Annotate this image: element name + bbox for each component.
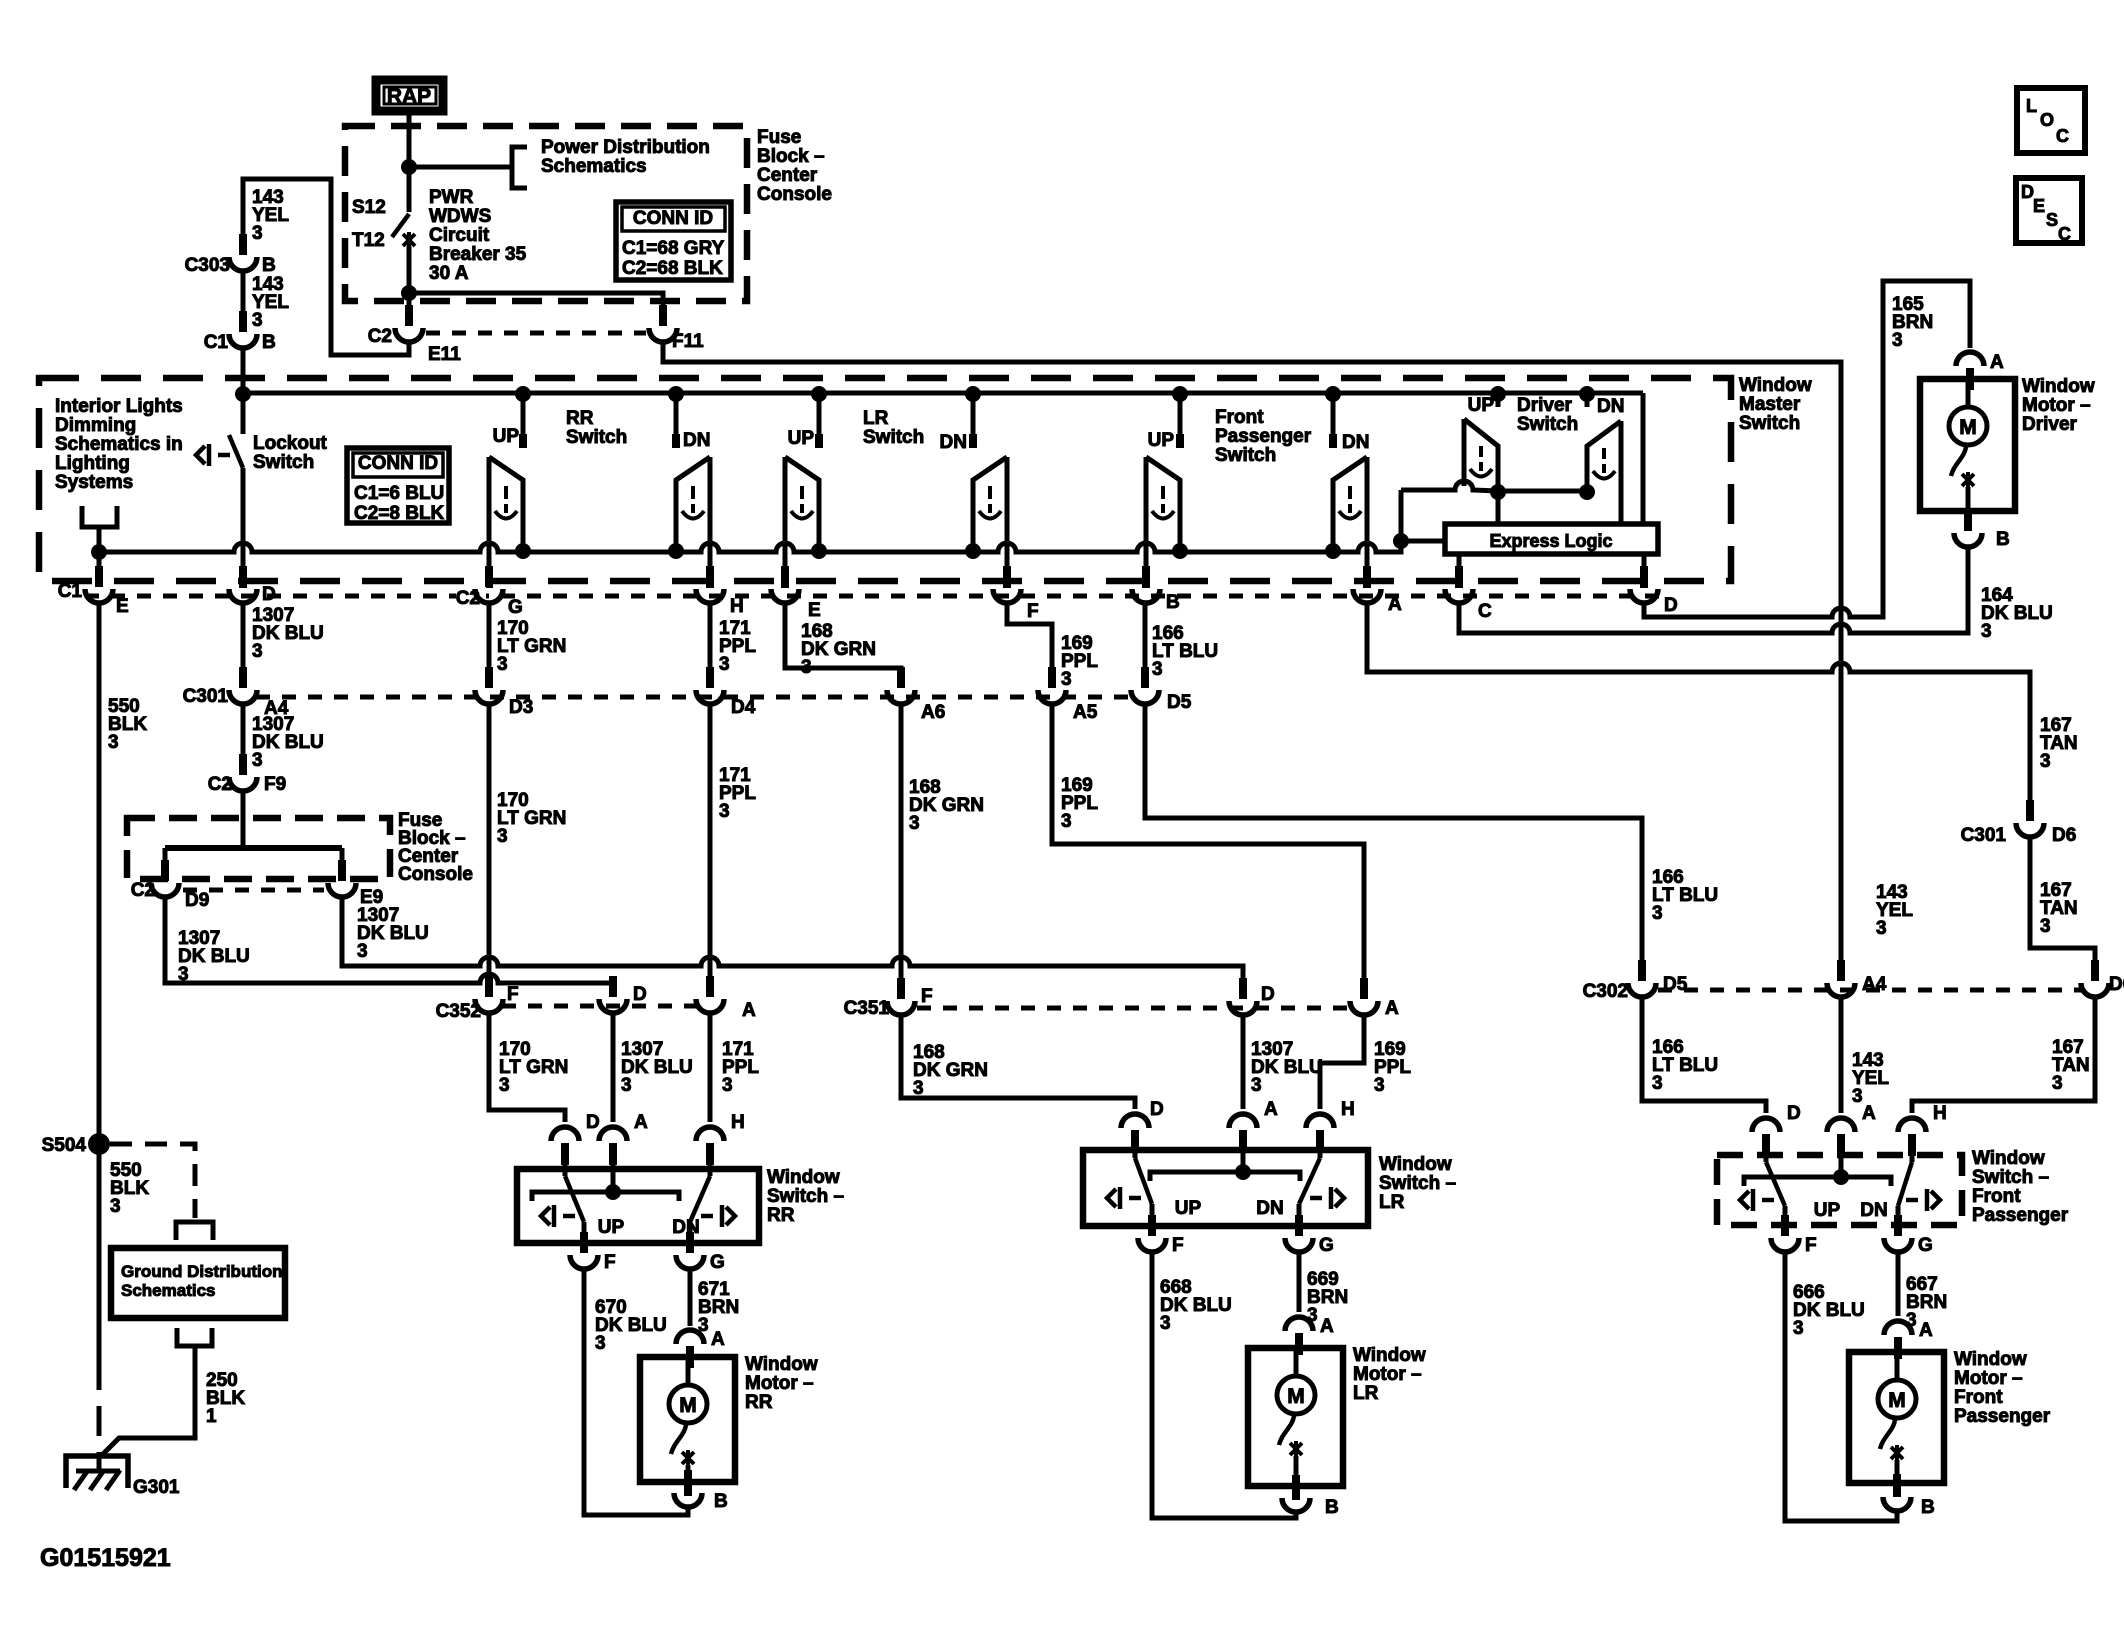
svg-text:Express Logic: Express Logic xyxy=(1489,531,1612,551)
window motor box xyxy=(1849,1352,1944,1483)
svg-text:B: B xyxy=(1921,1497,1935,1518)
connector C2 F9 xyxy=(229,777,257,791)
wire E to A6 elbow xyxy=(785,603,901,682)
CONN ID box fuse block xyxy=(616,202,731,280)
fuse block center console 2 dashed box xyxy=(127,818,390,879)
connector LR switch G xyxy=(1285,1238,1313,1252)
wire 167 TAN pin A to C301 D6 xyxy=(1367,603,2030,815)
connector C352 D xyxy=(599,999,627,1013)
FP switch release right xyxy=(1906,1189,1940,1211)
svg-text:H: H xyxy=(730,596,744,617)
svg-text:3: 3 xyxy=(1793,1318,1804,1339)
svg-text:CONN ID: CONN ID xyxy=(633,208,713,229)
connector RR motor A xyxy=(676,1330,704,1344)
wire interior lights to ground bus xyxy=(97,527,102,570)
wire 667 BRN G to motor A xyxy=(1896,1252,1901,1316)
connector A6 xyxy=(887,690,915,704)
RR switch common bar xyxy=(532,1192,679,1201)
svg-text:S12: S12 xyxy=(352,197,386,218)
svg-text:DN: DN xyxy=(1256,1198,1283,1219)
connector C express logic xyxy=(1445,589,1473,603)
svg-text:C2=8 BLK: C2=8 BLK xyxy=(354,503,445,524)
svg-text:3: 3 xyxy=(909,813,920,834)
svg-text:DK BLU: DK BLU xyxy=(357,923,429,944)
svg-text:1: 1 xyxy=(206,1406,217,1427)
RAP box xyxy=(376,80,443,111)
D9 E9 dotted line xyxy=(183,888,324,893)
wire 1307 D9 branch to C352 D xyxy=(165,897,613,991)
svg-text:Window: Window xyxy=(745,1354,818,1375)
DESC box xyxy=(2016,178,2082,243)
wire 143 YEL E11 to C303 loop xyxy=(243,179,409,355)
power bus junction at lockout xyxy=(235,386,251,402)
driver DN contact xyxy=(1585,395,1590,407)
svg-text:Schematics: Schematics xyxy=(541,156,647,177)
wire 668 DK BLU F to motor B xyxy=(1152,1252,1296,1518)
wire 165 BRN pin D to motor A xyxy=(1644,281,1970,617)
svg-text:3: 3 xyxy=(1981,621,1992,642)
connector FP motor A xyxy=(1884,1321,1912,1335)
svg-text:Driver: Driver xyxy=(1517,395,1573,416)
svg-text:Window: Window xyxy=(1954,1349,2027,1370)
wire A4 to C2 F9 xyxy=(241,704,246,769)
LR DN contact xyxy=(971,395,976,448)
svg-text:A: A xyxy=(634,1112,648,1133)
svg-text:G301: G301 xyxy=(133,1477,180,1498)
svg-text:UP: UP xyxy=(1468,395,1495,416)
svg-text:Circuit: Circuit xyxy=(429,225,490,246)
power bus feed to express logic xyxy=(1641,393,1646,524)
svg-text:WDWS: WDWS xyxy=(429,206,491,227)
svg-text:Switch: Switch xyxy=(566,427,627,448)
svg-text:A6: A6 xyxy=(921,702,945,723)
motor thermal contact star xyxy=(1962,472,1974,488)
connector FP switch G xyxy=(1884,1238,1912,1252)
LOC box xyxy=(2017,88,2085,153)
svg-text:DK BLU: DK BLU xyxy=(1251,1057,1323,1078)
ground distribution schematics box xyxy=(111,1248,285,1318)
LR switch common bar xyxy=(1150,1172,1300,1181)
motor thermal blade xyxy=(1951,445,1966,476)
wire lockout to D pin xyxy=(241,468,246,572)
wire 1307 C352 D to switch A xyxy=(611,1013,616,1122)
svg-text:E: E xyxy=(2033,196,2045,216)
svg-text:B: B xyxy=(1166,592,1180,613)
connector LR switch H xyxy=(1306,1114,1334,1128)
svg-text:C2: C2 xyxy=(368,326,392,347)
motor M circle xyxy=(1277,1376,1315,1414)
motor thermal contact star xyxy=(1891,1445,1903,1461)
motor pin B stub xyxy=(1292,1486,1300,1500)
wire express logic pin D xyxy=(1642,554,1647,572)
svg-text:3: 3 xyxy=(110,1196,121,1217)
svg-text:Switch: Switch xyxy=(1517,414,1578,435)
svg-text:Passenger: Passenger xyxy=(1215,426,1312,447)
svg-text:C2: C2 xyxy=(208,774,232,795)
wire express logic pin C xyxy=(1457,554,1462,572)
svg-text:D6: D6 xyxy=(2109,974,2124,995)
svg-text:G: G xyxy=(710,1252,725,1273)
svg-text:DK BLU: DK BLU xyxy=(1981,603,2053,624)
motor thermal blade xyxy=(671,1423,686,1454)
svg-text:C301: C301 xyxy=(1961,825,2007,846)
svg-text:D: D xyxy=(1261,984,1275,1005)
svg-text:S504: S504 xyxy=(42,1135,87,1156)
svg-text:RR: RR xyxy=(566,408,594,429)
motor lead xyxy=(1966,379,1971,407)
svg-text:A: A xyxy=(1388,594,1402,615)
driver UP contact xyxy=(1496,395,1501,407)
svg-text:F: F xyxy=(1172,1235,1184,1256)
wire 143 C302 A4 to FP switch A xyxy=(1839,997,1844,1113)
connector E LR up xyxy=(771,589,799,603)
express logic box xyxy=(1445,524,1658,554)
connector FP switch D xyxy=(1752,1118,1780,1132)
svg-text:Center: Center xyxy=(757,165,818,186)
wire 671 BRN G to motor A xyxy=(688,1269,693,1326)
connector RR switch H xyxy=(696,1127,724,1141)
svg-text:LR: LR xyxy=(1353,1383,1379,1404)
svg-text:C351: C351 xyxy=(844,998,890,1019)
svg-text:3: 3 xyxy=(1251,1075,1262,1096)
svg-text:T12: T12 xyxy=(352,230,385,251)
connector C2 G xyxy=(456,586,486,607)
svg-text:Switch: Switch xyxy=(253,452,314,473)
svg-text:D6: D6 xyxy=(2052,825,2076,846)
wire junction to F11 xyxy=(409,293,663,325)
window motor box xyxy=(1920,379,2015,511)
connector motor driver A xyxy=(1956,352,1984,366)
connector RR switch G xyxy=(676,1255,704,1269)
connector FP switch H xyxy=(1898,1118,1926,1132)
svg-text:DK BLU: DK BLU xyxy=(252,623,324,644)
svg-text:D5: D5 xyxy=(1167,692,1192,713)
svg-text:3: 3 xyxy=(2040,916,2051,937)
wire 166 C302 D5 to FP switch D xyxy=(1642,997,1766,1113)
connector C352 A xyxy=(696,999,724,1013)
circuit breaker 35 blade xyxy=(407,167,412,212)
svg-text:3: 3 xyxy=(1652,1073,1663,1094)
lockout switch blade xyxy=(229,435,243,468)
FP switch DN blade xyxy=(1910,1156,1915,1162)
ground G301 symbol xyxy=(66,1456,128,1488)
connector C301 D6 xyxy=(2016,823,2044,837)
FP switch UP blade xyxy=(1764,1156,1769,1162)
connector FP switch A xyxy=(1827,1118,1855,1132)
wire 164 DK BLU pin C to motor B xyxy=(1459,549,1968,633)
FP switch release left xyxy=(1740,1189,1774,1211)
svg-text:B: B xyxy=(714,1491,728,1512)
LR UP contact xyxy=(817,395,822,448)
splice S504 xyxy=(88,1133,110,1155)
ground distribution bottom bracket xyxy=(177,1328,212,1346)
C352 connector row dotted line xyxy=(502,1004,698,1009)
svg-text:C: C xyxy=(2056,126,2069,146)
svg-text:H: H xyxy=(731,1112,745,1133)
svg-text:G: G xyxy=(1319,1235,1334,1256)
svg-text:Window: Window xyxy=(1739,375,1812,396)
connector C301 D5 xyxy=(1131,690,1159,704)
wire 143 YEL C1 to lockout xyxy=(241,348,246,434)
connector B front passenger up xyxy=(1132,589,1160,603)
RR switch UP blade xyxy=(563,1165,568,1176)
wire 1307 E9 branch to C351 D xyxy=(342,897,1243,993)
svg-text:Switch –: Switch – xyxy=(767,1186,844,1207)
C2 connector row dotted line xyxy=(426,331,646,336)
svg-text:A: A xyxy=(1990,352,2004,373)
svg-text:Master: Master xyxy=(1739,394,1801,415)
svg-text:3: 3 xyxy=(252,310,263,331)
svg-text:3: 3 xyxy=(1152,659,1163,680)
motor M circle xyxy=(669,1385,707,1423)
svg-text:Switch –: Switch – xyxy=(1972,1167,2049,1188)
wire 171 C352 A to switch H xyxy=(708,1013,713,1122)
svg-text:D: D xyxy=(633,984,647,1005)
svg-text:3: 3 xyxy=(719,654,730,675)
CONN ID box master switch xyxy=(347,448,449,523)
svg-text:H: H xyxy=(1933,1103,1947,1124)
motor pin B stub xyxy=(1964,511,1972,525)
svg-text:RR: RR xyxy=(767,1205,795,1226)
wire B to D5 xyxy=(1143,603,1148,682)
wire 170 C352 F to switch D xyxy=(489,1013,565,1122)
svg-text:Switch: Switch xyxy=(1215,445,1276,466)
wire 171 PPL D4 to C352 A xyxy=(708,704,713,991)
connector D4 xyxy=(696,690,724,704)
svg-text:C2=68 BLK: C2=68 BLK xyxy=(622,258,723,279)
svg-text:Systems: Systems xyxy=(55,472,133,493)
wire G to D3 xyxy=(487,603,492,682)
svg-text:Driver: Driver xyxy=(2022,414,2078,435)
wire E to C301 A4 xyxy=(241,603,246,682)
splice S12 junction xyxy=(401,159,417,175)
connector RR motor B xyxy=(674,1493,702,1507)
connector RR switch A xyxy=(599,1127,627,1141)
connector RR switch F xyxy=(570,1255,598,1269)
svg-text:A: A xyxy=(711,1329,725,1350)
wire 170 LT GRN D3 to C352 F xyxy=(487,704,492,991)
motor lead xyxy=(686,1357,691,1385)
svg-text:3: 3 xyxy=(497,826,508,847)
svg-text:D4: D4 xyxy=(731,697,756,718)
motor M circle xyxy=(1949,407,1987,445)
svg-text:A: A xyxy=(1264,1099,1278,1120)
svg-text:Front: Front xyxy=(1972,1186,2021,1207)
svg-text:F: F xyxy=(507,984,519,1005)
svg-text:Window: Window xyxy=(1972,1148,2045,1169)
circuit breaker contact star xyxy=(403,232,415,248)
LR switch DN blade xyxy=(1318,1152,1323,1158)
svg-text:Schematics: Schematics xyxy=(121,1281,216,1300)
svg-text:C301: C301 xyxy=(183,686,229,707)
C302 connector row dotted line xyxy=(1658,988,2082,993)
svg-text:C1=6 BLU: C1=6 BLU xyxy=(354,483,444,504)
svg-text:Motor –: Motor – xyxy=(745,1373,814,1394)
svg-text:LR: LR xyxy=(863,408,889,429)
RR switch DN blade xyxy=(708,1165,713,1176)
svg-text:B: B xyxy=(262,332,276,353)
svg-text:Motor –: Motor – xyxy=(2022,395,2091,416)
svg-text:G: G xyxy=(508,597,523,618)
svg-text:D: D xyxy=(262,584,276,605)
connector RR switch D xyxy=(551,1127,579,1141)
motor pin B stub xyxy=(1893,1483,1901,1497)
wire 666 DK BLU F to motor B xyxy=(1785,1252,1897,1521)
svg-text:3: 3 xyxy=(1061,811,1072,832)
RR switch release right xyxy=(701,1205,735,1227)
RR switch release left xyxy=(541,1205,575,1227)
svg-text:Window: Window xyxy=(1353,1345,1426,1366)
svg-text:Breaker 35: Breaker 35 xyxy=(429,244,527,265)
svg-text:UP: UP xyxy=(1814,1200,1841,1221)
svg-text:DN: DN xyxy=(683,430,710,451)
connector D express logic xyxy=(1630,589,1658,603)
connector LR switch D xyxy=(1121,1114,1149,1128)
svg-text:UP: UP xyxy=(493,426,520,447)
connector FP motor B xyxy=(1883,1497,1911,1511)
svg-text:DN: DN xyxy=(1860,1200,1887,1221)
svg-text:F: F xyxy=(1805,1235,1817,1256)
svg-text:Console: Console xyxy=(398,864,473,885)
svg-text:DN: DN xyxy=(940,432,967,453)
svg-text:LR: LR xyxy=(1379,1192,1405,1213)
svg-text:M: M xyxy=(1888,1389,1906,1412)
driver contacts common link xyxy=(1401,481,1587,491)
motor thermal contact star xyxy=(682,1450,694,1466)
connector C352 F xyxy=(434,999,487,1020)
master switch power bus xyxy=(243,391,1643,396)
connector E9 xyxy=(328,883,356,897)
svg-text:C1=68 GRY: C1=68 GRY xyxy=(622,238,725,259)
svg-text:DK BLU: DK BLU xyxy=(252,732,324,753)
wire to power distribution bracket xyxy=(409,165,512,170)
svg-text:C1: C1 xyxy=(58,581,83,602)
svg-text:Interior Lights: Interior Lights xyxy=(55,396,183,417)
svg-text:3: 3 xyxy=(2040,751,2051,772)
junction below breaker xyxy=(401,285,417,301)
interior lights continuation bracket xyxy=(82,506,117,527)
svg-text:G01515921: G01515921 xyxy=(40,1544,171,1572)
svg-text:Motor –: Motor – xyxy=(1954,1368,2023,1389)
svg-text:3: 3 xyxy=(1061,669,1072,690)
svg-text:Passenger: Passenger xyxy=(1972,1205,2069,1226)
connector FP switch F xyxy=(1771,1238,1799,1252)
connector C302 D5 xyxy=(1581,979,1634,1000)
C301 connector row dotted line xyxy=(256,695,1130,700)
power distribution bracket xyxy=(512,147,527,188)
svg-text:DN: DN xyxy=(1597,396,1624,417)
motor thermal contact star xyxy=(1290,1441,1302,1457)
svg-text:3: 3 xyxy=(719,801,730,822)
master switch connector row dotted line xyxy=(85,594,1662,599)
svg-text:D3: D3 xyxy=(509,697,533,718)
dashed wire 550 BLK to G301 xyxy=(97,1360,102,1456)
svg-text:D9: D9 xyxy=(185,890,209,911)
svg-text:Schematics in: Schematics in xyxy=(55,434,183,455)
connector LR switch F xyxy=(1138,1238,1166,1252)
window motor box xyxy=(640,1357,735,1482)
svg-text:CONN ID: CONN ID xyxy=(358,453,438,474)
ground distribution top bracket xyxy=(176,1222,213,1240)
svg-text:M: M xyxy=(1959,416,1977,439)
svg-text:DK GRN: DK GRN xyxy=(909,795,984,816)
fuse block 2 bus bar xyxy=(241,791,246,848)
connector C1 B xyxy=(229,334,257,348)
wire breaker to junction xyxy=(407,246,412,293)
motor thermal blade xyxy=(1279,1414,1294,1445)
svg-text:DK BLU: DK BLU xyxy=(595,1315,667,1336)
svg-text:B: B xyxy=(1325,1497,1339,1518)
svg-text:C302: C302 xyxy=(1583,981,1628,1002)
window switch RR box xyxy=(517,1169,759,1243)
RR DN contact xyxy=(674,395,679,448)
fuse block center console dashed box xyxy=(345,126,747,301)
wire 168 DK GRN A6 to C351 F xyxy=(899,704,904,993)
connector F LR down xyxy=(993,589,1021,603)
connector C302 A4 xyxy=(1827,983,1855,997)
svg-text:A: A xyxy=(1919,1320,1933,1341)
svg-text:B: B xyxy=(262,255,276,276)
wire 1307 C351 D to switch A xyxy=(1241,1015,1246,1109)
svg-text:A4: A4 xyxy=(1862,974,1887,995)
motor pin B stub xyxy=(684,1482,692,1496)
connector A front passenger down xyxy=(1353,589,1381,603)
wire RAP to S12 xyxy=(407,111,412,167)
svg-text:Front: Front xyxy=(1954,1387,2003,1408)
svg-text:3: 3 xyxy=(252,750,263,771)
svg-text:3: 3 xyxy=(252,223,263,244)
connector C351 A xyxy=(1350,1001,1378,1015)
connector C303 B xyxy=(229,257,257,271)
svg-text:E11: E11 xyxy=(428,344,461,365)
svg-text:DK BLU: DK BLU xyxy=(1793,1300,1865,1321)
svg-text:A: A xyxy=(1320,1316,1334,1337)
svg-text:RAP: RAP xyxy=(387,85,431,108)
svg-text:DK GRN: DK GRN xyxy=(801,639,876,660)
window master switch dashed box xyxy=(39,378,1731,581)
connector C2 E11 xyxy=(395,328,423,342)
window switch front passenger dashed box xyxy=(1717,1155,1962,1225)
svg-text:Window: Window xyxy=(2022,376,2095,397)
svg-text:F: F xyxy=(1027,601,1039,622)
svg-text:3: 3 xyxy=(2052,1073,2063,1094)
svg-text:F11: F11 xyxy=(672,331,704,352)
svg-text:UP: UP xyxy=(1175,1198,1202,1219)
svg-text:Ground Distribution: Ground Distribution xyxy=(121,1262,282,1281)
lockout switch release symbol xyxy=(196,444,230,466)
svg-text:C: C xyxy=(1478,601,1492,622)
svg-text:D: D xyxy=(1664,595,1678,616)
wire F to A5 elbow xyxy=(1007,603,1052,682)
wire driver UP common to express logic xyxy=(1496,492,1501,524)
connector C2 D9 xyxy=(151,883,179,897)
svg-text:Switch: Switch xyxy=(1739,413,1800,434)
svg-text:3: 3 xyxy=(1160,1313,1171,1334)
connector F11 xyxy=(649,328,677,342)
wire 669 BRN G to motor A xyxy=(1297,1252,1302,1312)
RR UP contact xyxy=(521,395,526,448)
svg-text:M: M xyxy=(679,1394,697,1417)
svg-text:Lockout: Lockout xyxy=(253,433,328,454)
svg-text:3: 3 xyxy=(1876,918,1887,939)
svg-text:D5: D5 xyxy=(1663,974,1688,995)
wire 167 C302 D6 to FP switch H xyxy=(1912,997,2095,1113)
connector LR motor B xyxy=(1282,1498,1310,1512)
wire 250 BLK xyxy=(101,1346,195,1456)
svg-text:H: H xyxy=(1341,1099,1355,1120)
wire 167 TAN C301 D6 to C302 D6 xyxy=(2030,837,2095,977)
svg-text:Window: Window xyxy=(767,1167,840,1188)
